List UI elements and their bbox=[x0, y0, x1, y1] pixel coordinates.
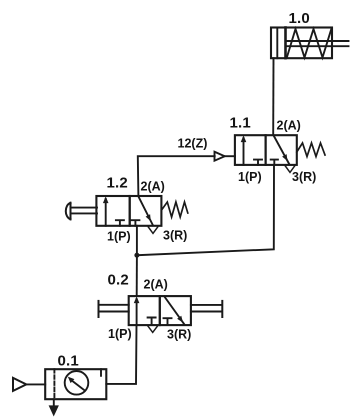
svg-text:1.1: 1.1 bbox=[230, 115, 251, 132]
valve V3 left plunger actuator bbox=[99, 304, 129, 306]
service unit U1 top tick bbox=[100, 369, 102, 376]
valve V2 (1.2) body right box bbox=[130, 196, 162, 226]
valve V3 (0.2) body right box bbox=[160, 296, 191, 325]
junction node bbox=[134, 253, 139, 258]
svg-text:1(P): 1(P) bbox=[107, 230, 131, 244]
air supply source triangle bbox=[13, 378, 26, 391]
svg-text:3(R): 3(R) bbox=[292, 170, 316, 184]
valve V2 flow arrow 1-2 (left box) bbox=[105, 199, 107, 226]
valve V1 blocked port T (left box) bbox=[254, 160, 262, 165]
wire source to service unit bbox=[26, 383, 45, 385]
wire valve 0.2 port 1 down to supply corner bbox=[106, 325, 136, 384]
svg-text:2(A): 2(A) bbox=[141, 180, 165, 194]
service unit U1 drain arrow bbox=[49, 405, 59, 416]
wire junction down to valve 0.2 port 2 bbox=[136, 255, 138, 296]
valve V1 flow arrow 2-3 (right box) bbox=[274, 136, 290, 165]
service unit U1 dashed separator bbox=[53, 369, 55, 399]
service unit U1 gauge needle bbox=[73, 381, 85, 390]
valve V2 flow arrow 2-3 (right box) bbox=[138, 196, 153, 225]
svg-text:1.0: 1.0 bbox=[289, 10, 310, 27]
service unit U1 drain line bbox=[53, 399, 55, 406]
svg-text:3(R): 3(R) bbox=[167, 328, 191, 342]
svg-text:0.2: 0.2 bbox=[108, 272, 129, 289]
svg-text:0.1: 0.1 bbox=[58, 353, 79, 370]
valve V1 flow arrow 1-2 (left box) bbox=[243, 138, 245, 165]
cylinder C1 piston rod bbox=[287, 40, 349, 42]
valve V3 (0.2) body left box bbox=[129, 296, 160, 325]
svg-text:1.2: 1.2 bbox=[107, 175, 128, 192]
valve V3 right plunger actuator bbox=[191, 304, 222, 306]
valve V1 return spring bbox=[297, 143, 325, 157]
svg-text:3(R): 3(R) bbox=[163, 229, 187, 243]
valve V1 exhaust triangle at 3(R) bbox=[285, 166, 294, 172]
valve V1 (1.1) body right box bbox=[266, 135, 297, 165]
svg-text:1(P): 1(P) bbox=[108, 327, 132, 341]
valve V2 (1.2) body left box bbox=[96, 196, 129, 226]
valve V3 flow arrow 1-2 (left box) bbox=[136, 299, 138, 325]
valve V3 blocked port T (left box) bbox=[148, 318, 156, 326]
valve V1 pilot port triangle 12(Z) bbox=[225, 155, 235, 157]
svg-text:1(P): 1(P) bbox=[238, 170, 262, 184]
service unit U1 (0.1) body bbox=[45, 369, 106, 399]
valve V3 flow arrow 2-3 (right box) bbox=[164, 296, 184, 324]
valve V2 return spring bbox=[162, 202, 188, 217]
cylinder C1 return spring bbox=[287, 29, 332, 58]
valve V2 blocked port T (right box) bbox=[131, 220, 139, 226]
svg-text:12(Z): 12(Z) bbox=[178, 137, 208, 151]
valve V2 exhaust triangle at 3(R) bbox=[148, 227, 157, 233]
wire 12(Z) pilot line from valve 1.2 output to valve 1.1 bbox=[138, 156, 215, 196]
cylinder C1 piston bbox=[284, 28, 287, 59]
cylinder C1 left end cap line bbox=[276, 28, 278, 59]
valve V3 exhaust triangle bbox=[148, 326, 157, 332]
wire cylinder port to valve 1.1 port 2 bbox=[272, 58, 274, 134]
wire valve 1.2 port 1 down to junction bbox=[136, 226, 138, 255]
valve V1 blocked port T (right box) bbox=[271, 160, 278, 165]
svg-text:2(A): 2(A) bbox=[277, 119, 301, 133]
valve V2 blocked port T (left box) bbox=[116, 220, 124, 226]
valve V2 push button actuator bbox=[71, 207, 98, 209]
cylinder C1 (1.0) body bbox=[271, 28, 332, 59]
valve V1 (1.1) body left box bbox=[235, 135, 266, 165]
valve V3 blocked port T (right box) bbox=[164, 318, 172, 325]
svg-text:2(A): 2(A) bbox=[144, 278, 168, 292]
wire junction to valve 1.1 port 1 bbox=[137, 165, 274, 255]
service unit U1 gauge circle bbox=[65, 371, 89, 395]
